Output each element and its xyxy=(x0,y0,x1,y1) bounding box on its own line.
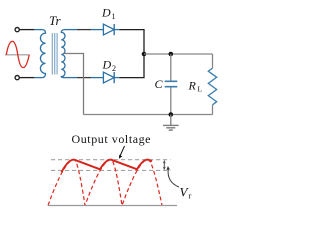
svg-text:D: D xyxy=(102,58,112,72)
center tap wire xyxy=(64,54,84,115)
wire secondary bottom to D2 anode xyxy=(65,77,77,79)
svg-text:D: D xyxy=(101,6,111,20)
Vr pointer curve xyxy=(167,166,180,187)
node dot capacitor top xyxy=(169,52,174,57)
annotation arrow to waveform xyxy=(119,146,125,159)
svg-text:1: 1 xyxy=(112,12,116,21)
wire secondary top to D1 anode xyxy=(65,29,77,31)
solid ripple output waveform xyxy=(62,160,153,173)
transformer Tr primary winding xyxy=(40,30,45,78)
capacitor C plates xyxy=(165,81,178,86)
svg-text:R: R xyxy=(188,79,197,93)
bottom rail xyxy=(84,114,213,116)
svg-text:r: r xyxy=(189,191,192,201)
AC source sine symbol xyxy=(5,41,30,67)
svg-text:L: L xyxy=(198,85,203,94)
resistor RL leads xyxy=(212,54,214,68)
wire terminal top to primary xyxy=(20,29,35,31)
diode D2 xyxy=(103,72,119,83)
dashed level line lower xyxy=(51,169,171,171)
terminal (top) xyxy=(15,28,19,32)
diode D1 xyxy=(103,24,119,35)
svg-text:C: C xyxy=(155,77,164,91)
Vr dimension arrow xyxy=(163,160,166,170)
dashed rectified sine humps xyxy=(48,160,162,206)
dashed level line upper xyxy=(51,159,171,161)
capacitor C leads xyxy=(170,54,172,81)
svg-text:2: 2 xyxy=(112,64,116,73)
node ground junction dot xyxy=(169,112,174,117)
node junction dot (diodes) xyxy=(142,52,147,57)
graph baseline xyxy=(48,205,177,207)
wire D1 cathode to junction, down, and D2 cathode xyxy=(120,30,145,78)
svg-text:Tr: Tr xyxy=(49,13,62,28)
resistor RL zigzag xyxy=(208,68,216,105)
transformer core xyxy=(52,33,57,75)
ground symbol xyxy=(163,115,179,131)
svg-text:Output voltage: Output voltage xyxy=(72,132,151,146)
top rail wire to RL xyxy=(144,53,213,55)
wire terminal bottom to primary xyxy=(20,77,35,79)
terminal (bottom) xyxy=(15,76,19,80)
transformer Tr secondary winding xyxy=(61,30,65,78)
